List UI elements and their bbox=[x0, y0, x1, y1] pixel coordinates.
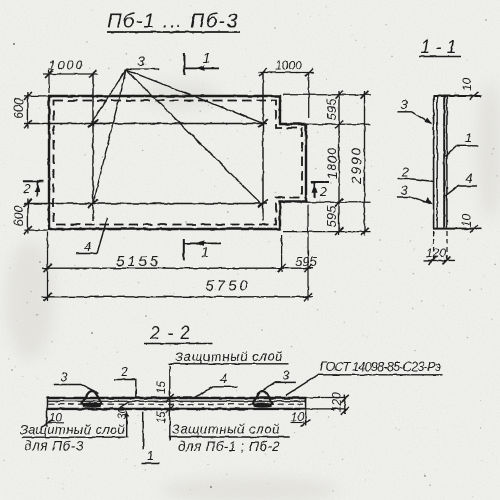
svg-text:1000: 1000 bbox=[48, 58, 85, 72]
svg-text:4: 4 bbox=[220, 372, 227, 386]
svg-text:1: 1 bbox=[201, 244, 209, 260]
svg-text:600: 600 bbox=[12, 98, 26, 119]
svg-text:10: 10 bbox=[460, 78, 474, 92]
svg-text:1-1: 1-1 bbox=[420, 37, 461, 57]
svg-text:120: 120 bbox=[426, 246, 446, 260]
svg-text:15: 15 bbox=[156, 381, 168, 394]
svg-text:595: 595 bbox=[324, 98, 339, 120]
svg-text:2: 2 bbox=[319, 184, 328, 199]
svg-text:3: 3 bbox=[400, 183, 408, 198]
svg-text:Пб-1 ... Пб-3: Пб-1 ... Пб-3 bbox=[107, 11, 239, 33]
svg-text:2-2: 2-2 bbox=[149, 323, 197, 343]
svg-text:4: 4 bbox=[465, 171, 472, 186]
svg-text:2990: 2990 bbox=[349, 146, 364, 185]
svg-text:Защитный слой: Защитный слой bbox=[20, 422, 125, 437]
svg-text:1800: 1800 bbox=[325, 147, 340, 179]
svg-text:для Пб-1 ; Пб-2: для Пб-1 ; Пб-2 bbox=[178, 439, 280, 454]
svg-text:30: 30 bbox=[117, 406, 129, 419]
svg-text:Защитный слой: Защитный слой bbox=[175, 349, 283, 364]
svg-text:595: 595 bbox=[295, 254, 317, 269]
svg-text:3: 3 bbox=[283, 368, 290, 382]
svg-text:3: 3 bbox=[400, 97, 408, 112]
svg-text:5155: 5155 bbox=[116, 253, 161, 270]
svg-text:10: 10 bbox=[291, 412, 304, 424]
svg-text:4: 4 bbox=[84, 239, 91, 254]
svg-text:3: 3 bbox=[137, 53, 145, 69]
svg-text:1000: 1000 bbox=[275, 59, 302, 73]
svg-text:2: 2 bbox=[22, 181, 31, 196]
svg-text:600: 600 bbox=[12, 206, 26, 227]
svg-text:5750: 5750 bbox=[205, 277, 250, 294]
svg-text:10: 10 bbox=[460, 214, 474, 228]
svg-text:120: 120 bbox=[330, 392, 344, 412]
svg-text:1: 1 bbox=[203, 49, 211, 65]
svg-text:3: 3 bbox=[61, 370, 68, 384]
svg-text:2: 2 bbox=[120, 365, 128, 379]
svg-text:2: 2 bbox=[400, 165, 409, 180]
svg-text:ГОСТ 14098-85-С23-Рэ: ГОСТ 14098-85-С23-Рэ bbox=[320, 360, 441, 374]
svg-text:1: 1 bbox=[465, 130, 472, 145]
svg-text:Защитный слой: Защитный слой bbox=[172, 421, 280, 436]
svg-text:595: 595 bbox=[324, 205, 339, 227]
svg-text:1: 1 bbox=[147, 448, 154, 463]
svg-text:15: 15 bbox=[156, 411, 168, 424]
svg-text:для Пб-3: для Пб-3 bbox=[24, 439, 83, 454]
